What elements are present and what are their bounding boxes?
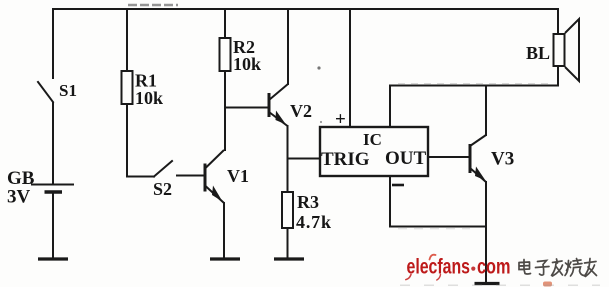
ground battery <box>38 257 68 260</box>
scan speck near V2 <box>317 66 320 69</box>
wire R1 branch from rail <box>126 9 128 71</box>
wire V2 collector to rail <box>287 9 289 84</box>
wire right edge down to speaker <box>557 9 559 34</box>
wire base node to V2 base <box>225 107 268 109</box>
svg-text:V3: V3 <box>491 149 514 170</box>
transistor V1 <box>205 150 224 203</box>
wire R1 bottom down <box>126 104 128 177</box>
battery GB short thick plate <box>45 190 63 194</box>
logo swash on f <box>430 255 436 260</box>
wire V2 emitter down to TRIG node <box>287 126 289 159</box>
wire R2 bottom to base node <box>224 71 226 108</box>
svg-text:BL: BL <box>526 43 550 63</box>
svg-text:10k: 10k <box>135 88 163 108</box>
wire top supply rail <box>53 8 558 10</box>
battery GB long plate <box>31 184 74 186</box>
glyph 电 <box>519 260 531 275</box>
wire V3 collector vertical <box>485 86 487 136</box>
scan noise above speaker return wire <box>398 83 548 85</box>
svg-text:S1: S1 <box>59 81 77 100</box>
resistor R3 body <box>282 192 293 228</box>
svg-text:S2: S2 <box>153 179 172 199</box>
wire V1 emitter to ground <box>223 203 225 258</box>
svg-text:com: com <box>477 256 511 279</box>
svg-text:R3: R3 <box>297 192 319 212</box>
wire IC plus pin from rail <box>349 9 351 127</box>
watermark bottom edge fragments <box>400 282 600 287</box>
wire OUT to V3 base <box>428 156 469 158</box>
IC box U1 <box>320 127 428 176</box>
svg-text:OUT: OUT <box>385 148 427 169</box>
resistor R2 body <box>220 38 231 71</box>
wire TRIG node to R3 <box>287 159 289 192</box>
wire V3 emitter to ground <box>485 182 487 283</box>
resistor R1 body <box>122 71 133 104</box>
ground R3 <box>274 257 304 260</box>
wire R3 bottom to ground <box>287 228 289 258</box>
scan noise smudge above top rail <box>128 4 178 6</box>
wire IC second top pin <box>389 86 391 128</box>
wire V1 collector vertical <box>224 108 226 150</box>
wire S2 to V1 base <box>177 175 204 177</box>
watermark elecfans.com logo <box>406 255 511 280</box>
wire bottom-right horizontal (speaker return) <box>390 85 558 87</box>
wire corner to S2 <box>127 176 154 178</box>
svg-text:elecfans: elecfans <box>407 256 471 279</box>
glyph 发 <box>552 259 563 276</box>
wire S1 to battery <box>52 103 54 183</box>
wire S1 branch from rail <box>52 9 54 78</box>
transistor V2 <box>269 84 288 126</box>
svg-text:+: + <box>335 109 346 130</box>
svg-text:V1: V1 <box>227 166 249 186</box>
glyph 烧 <box>565 259 584 277</box>
wire minus to V3 emitter <box>390 226 486 228</box>
svg-text:V2: V2 <box>290 101 312 121</box>
switch S2 blade <box>154 161 172 177</box>
pin label minus <box>392 184 404 187</box>
ground V3 emitter <box>475 282 500 285</box>
transistor V3 <box>470 135 486 182</box>
ground V1 emitter <box>210 257 240 260</box>
wire battery to ground <box>52 192 54 258</box>
switch S1 blade <box>38 82 53 102</box>
wire R2 branch from rail <box>224 9 226 38</box>
speaker BL <box>554 19 580 81</box>
logo dot diamond <box>471 267 475 271</box>
wire speaker bottom to corner <box>557 66 559 86</box>
glyph 子 <box>536 261 550 276</box>
svg-text:IC: IC <box>363 130 382 149</box>
svg-text:4.7k: 4.7k <box>296 212 331 232</box>
wire TRIG node to IC <box>288 158 321 160</box>
scan noise below minus wire <box>398 228 470 230</box>
logo tail under e <box>406 275 411 280</box>
watermark chinese 电子发烧友 <box>519 259 597 277</box>
svg-text:3V: 3V <box>7 187 31 208</box>
logo tail under n <box>437 275 441 281</box>
wire IC minus pin down <box>389 176 391 227</box>
glyph 友 <box>585 259 597 277</box>
svg-text:TRIG: TRIG <box>321 149 370 170</box>
svg-text:10k: 10k <box>233 54 261 74</box>
